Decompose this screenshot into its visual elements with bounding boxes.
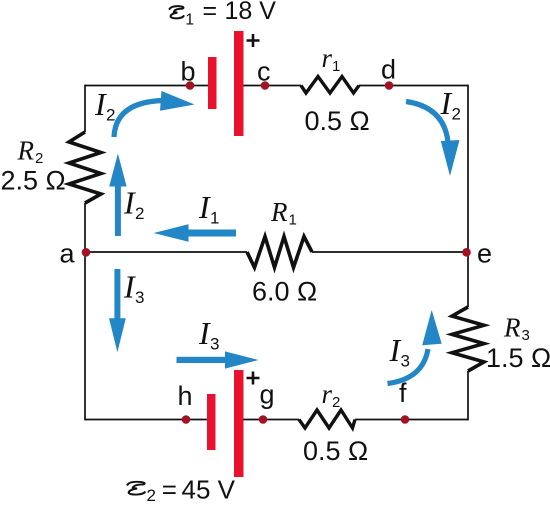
svg-text:R: R [270,197,288,227]
wire right vertical lower [467,371,469,420]
label EMF E2 = 45 V [127,475,235,506]
wire right vertical upper [467,85,469,307]
resistor r1 zigzag [301,77,359,94]
svg-text:2: 2 [106,106,115,125]
svg-text:3: 3 [522,327,530,344]
svg-text:d: d [381,55,396,85]
svg-text:3: 3 [135,288,144,307]
wire bottom left horizontal [85,419,207,421]
svg-text:1: 1 [185,12,194,29]
arrow I1 left (middle) [154,224,236,242]
resistor R3 zigzag [452,307,484,371]
wire left vertical upper [84,85,86,132]
resistor R1 zigzag [247,237,312,268]
node f [401,415,410,424]
svg-text:1: 1 [332,58,340,75]
wire bottom middle (r2 to battery) [244,419,300,421]
svg-text:r: r [322,379,333,409]
svg-text:f: f [399,378,407,408]
wire bottom right horizontal [355,419,468,421]
svg-text:1.5 Ω: 1.5 Ω [486,343,550,373]
svg-text:=: = [162,475,177,505]
battery E2 positive plate [234,370,244,477]
svg-text:1: 1 [210,209,219,228]
svg-text:e: e [477,239,492,269]
svg-text:a: a [60,239,76,269]
svg-text:h: h [178,381,193,411]
battery E1 positive plate [234,31,244,136]
battery E2 plus sign [247,372,260,385]
resistor r2 zigzag [299,410,355,428]
svg-text:2: 2 [135,204,144,223]
wire top-left horizontal [85,85,208,87]
svg-text:2: 2 [332,394,340,411]
svg-text:2: 2 [147,486,156,505]
node d [385,81,394,90]
node b [186,81,195,90]
battery E2 negative plate [207,394,216,450]
arrow I2 curved (top-left) [114,91,195,137]
svg-text:3: 3 [401,352,410,371]
node e [462,248,471,257]
node c [261,81,270,90]
svg-text:b: b [181,57,196,87]
node a [82,248,91,257]
svg-text:3: 3 [210,335,219,354]
arrow I2 curved (top-right) [406,102,460,177]
svg-text:c: c [257,57,271,87]
label EMF E1 = 18 V [170,0,277,29]
wire left vertical lower [84,203,86,420]
svg-text:1: 1 [289,212,297,229]
node h [182,415,191,424]
svg-text:r: r [322,43,333,73]
svg-text:2: 2 [452,105,461,124]
svg-text:2.5 Ω: 2.5 Ω [1,166,66,196]
wire top-right horizontal (battery to r1, r1 to corner) [244,85,469,87]
svg-text:18 V: 18 V [225,0,277,25]
svg-text:6.0 Ω: 6.0 Ω [252,277,317,307]
arrow I2 up (left) [109,154,126,237]
wire middle horizontal right [312,251,468,253]
node g [259,415,268,424]
svg-text:0.5 Ω: 0.5 Ω [305,106,370,136]
battery E1 plus sign [247,34,260,47]
wire middle horizontal left [85,251,247,253]
svg-text:2: 2 [35,150,43,167]
resistor R2 zigzag [69,132,101,203]
svg-text:R: R [17,136,35,166]
svg-text:R: R [503,313,521,343]
svg-text:=: = [203,0,218,25]
svg-text:g: g [260,380,275,410]
battery E1 negative plate [208,57,217,109]
arrow I3 down (left) [109,269,126,352]
arrow I3 curved (bottom-right) [388,310,442,384]
arrow I3 right (bottom) [177,351,259,368]
wire: top left segment b to battery [85,85,468,421]
svg-text:0.5 Ω: 0.5 Ω [303,436,368,466]
svg-text:45 V: 45 V [182,475,236,505]
